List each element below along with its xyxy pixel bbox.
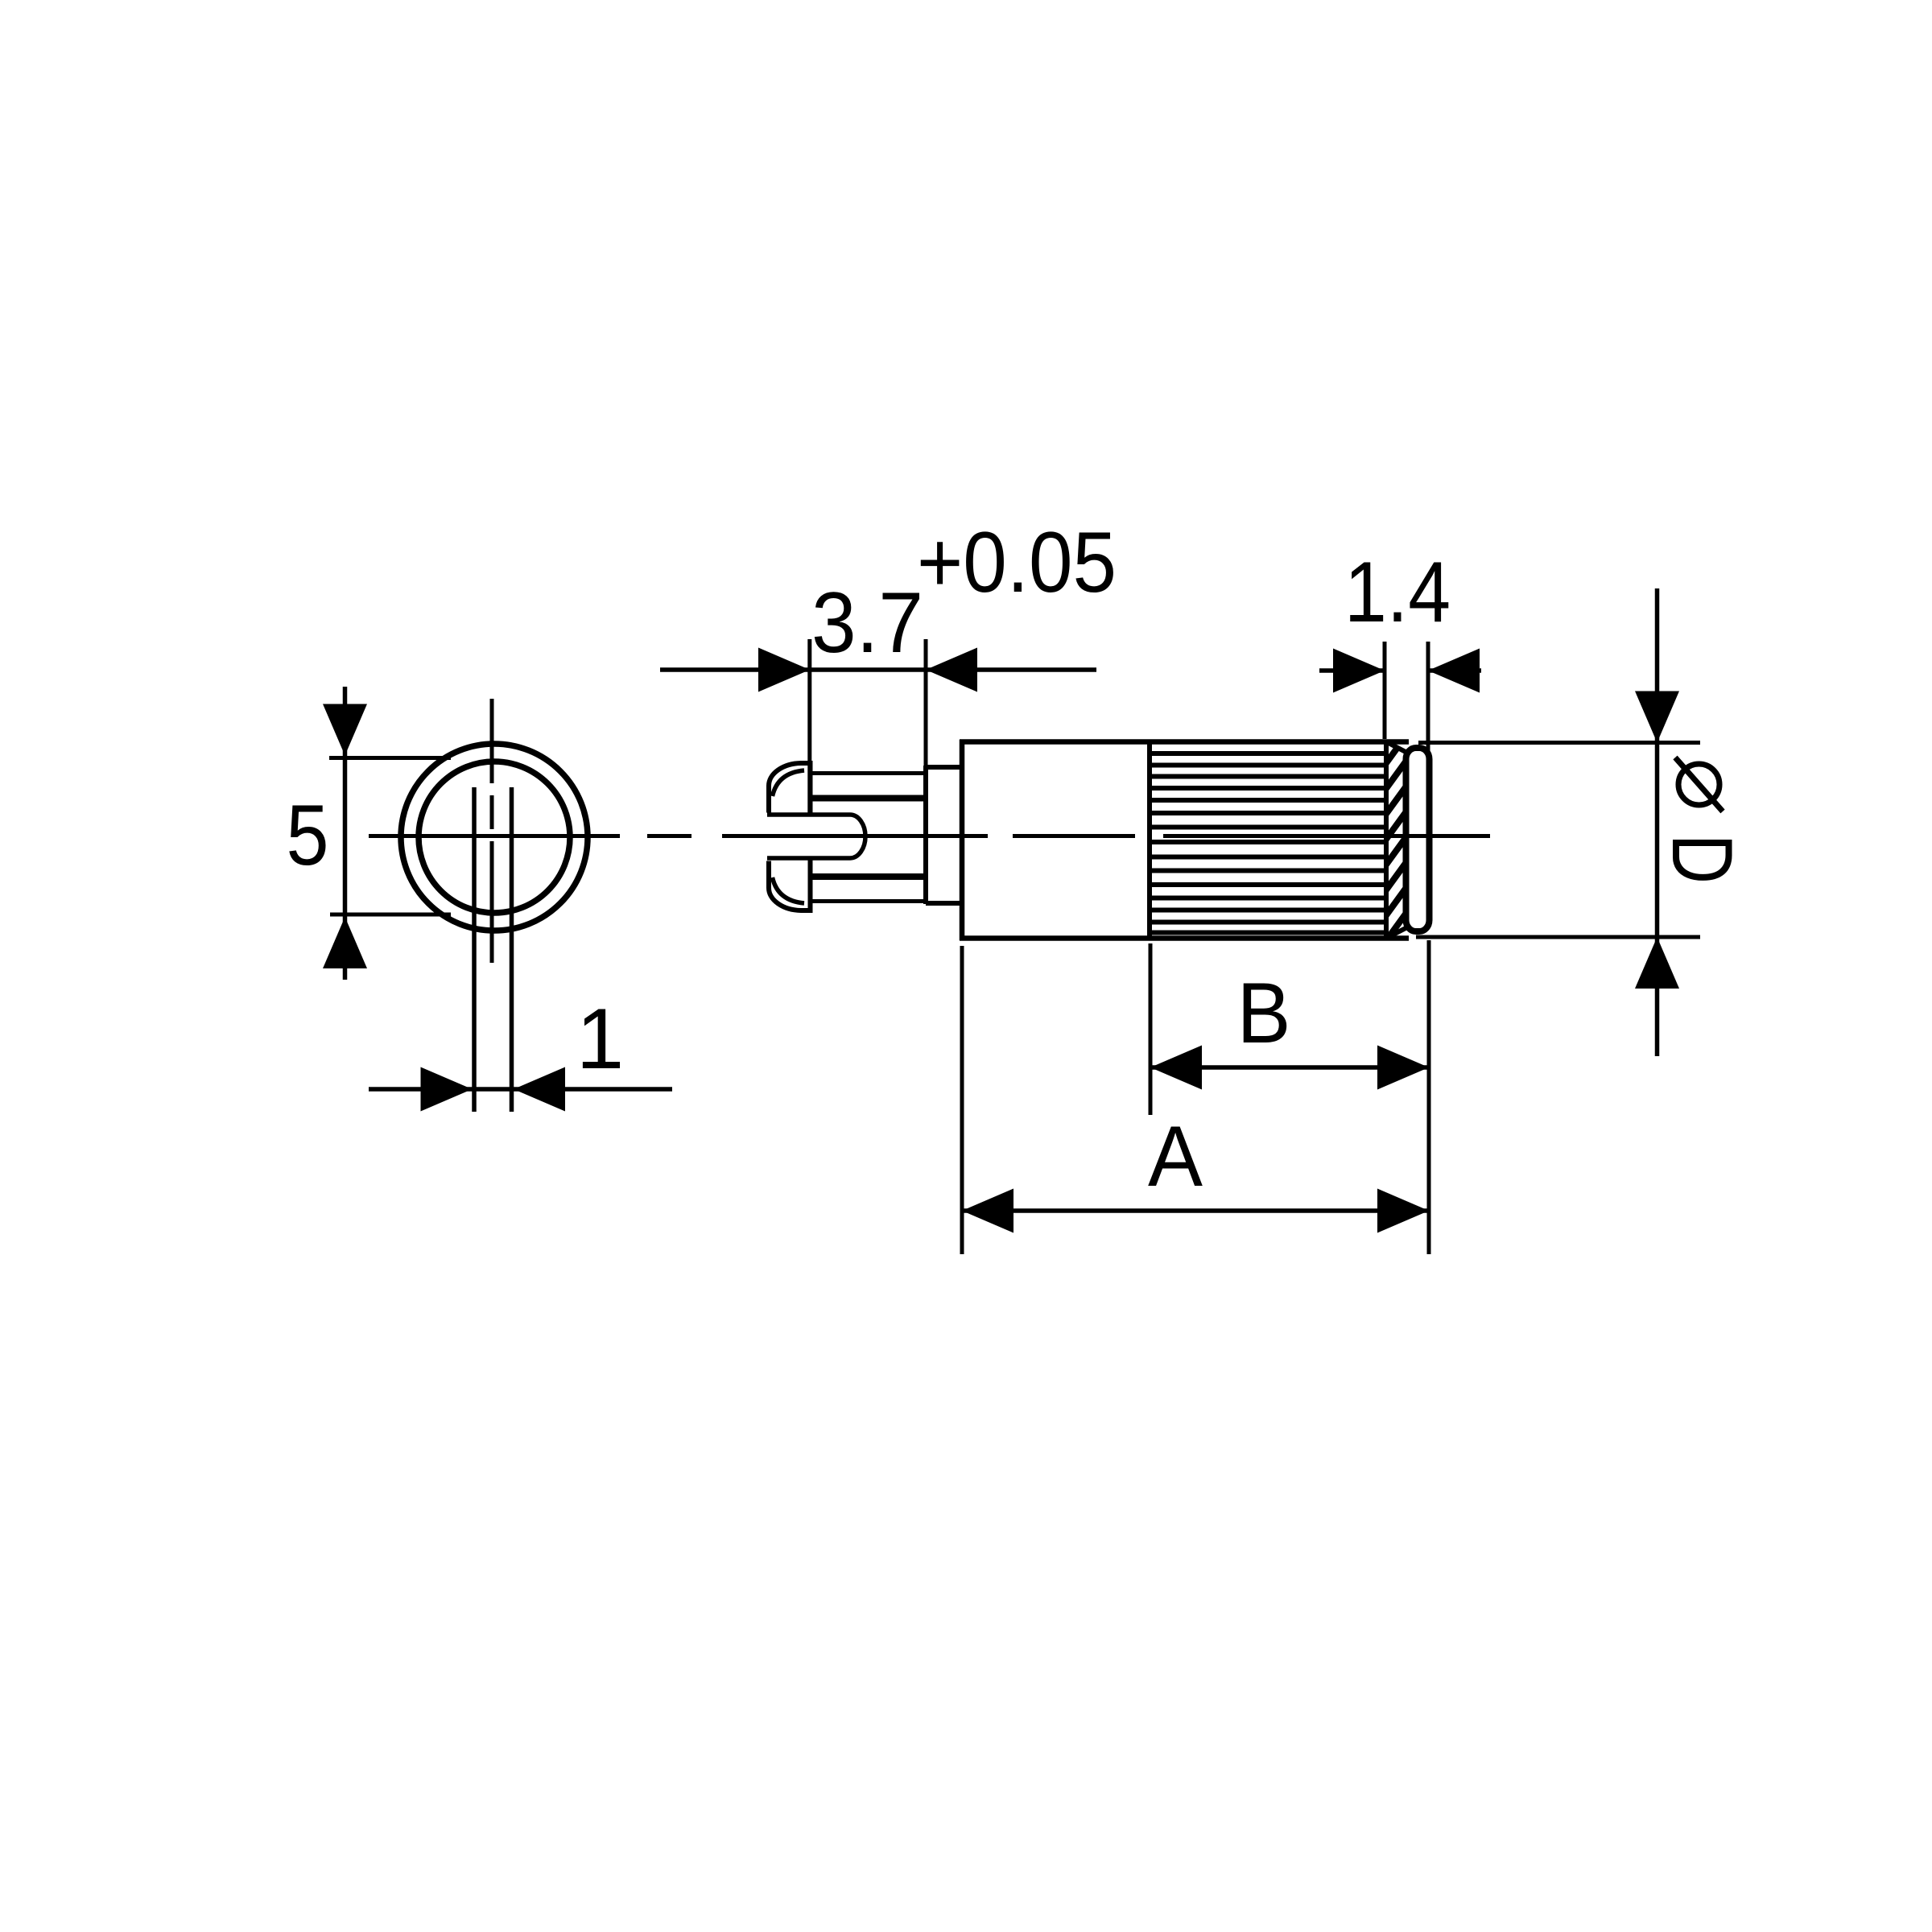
svg-text:D: D: [1654, 834, 1751, 884]
svg-text:1: 1: [576, 990, 625, 1087]
svg-text:3.7: 3.7: [811, 574, 923, 671]
svg-text:B: B: [1237, 964, 1291, 1061]
svg-text:1.4: 1.4: [1344, 543, 1451, 640]
svg-text:A: A: [1148, 1108, 1203, 1204]
svg-text:+0.05: +0.05: [917, 514, 1117, 610]
svg-text:5: 5: [287, 786, 329, 883]
